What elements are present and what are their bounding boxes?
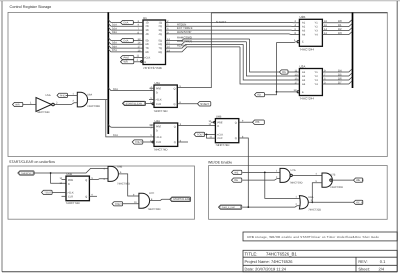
svg-text:74HCT244: 74HCT244 — [300, 47, 315, 51]
svg-text:>CLK: >CLK — [155, 98, 162, 101]
svg-text:START/CLEAR on underflow: START/CLEAR on underflow — [9, 160, 55, 164]
wire START net U1 pin 1Q to U2B A1 — [166, 22, 300, 24]
wire D5 from U2A Y2 to bus B3 — [322, 73, 352, 76]
svg-text:WE_B: WE_B — [356, 179, 364, 182]
svg-text:D: D — [68, 183, 70, 186]
label OE — [232, 178, 242, 182]
wire DIAG to U8A in2 — [243, 206, 300, 207]
svg-text:OE: OE — [234, 179, 238, 182]
svg-text:4D: 4D — [146, 33, 149, 36]
svg-text:Y1: Y1 — [315, 71, 319, 74]
label WR — [13, 102, 37, 106]
wire staircase to U2A A2 — [246, 42, 299, 76]
U5B CLR stub — [62, 195, 67, 197]
svg-text:TIMERCNT: TIMERCNT — [21, 172, 32, 175]
net names on U1 output wires — [177, 22, 193, 47]
svg-text:CLR: CLR — [68, 195, 73, 198]
svg-text:Y2: Y2 — [315, 26, 319, 29]
svg-text:74HCT244: 74HCT244 — [300, 97, 315, 101]
wire inverter out to U6A in2 — [54, 103, 77, 105]
svg-text:74HCT377DB: 74HCT377DB — [143, 66, 162, 70]
svg-text:D7: D7 — [338, 80, 342, 84]
svg-text:Date: 20/07/2019 11:24: Date: 20/07/2019 11:24 — [245, 266, 287, 271]
svg-text:PRE: PRE — [156, 126, 161, 129]
wire START net vertical from U3A Q — [178, 13, 212, 88]
label WR2 — [121, 60, 143, 64]
svg-text:U5A: U5A — [46, 94, 51, 97]
svg-text:Q: Q — [174, 126, 176, 129]
NAND gate U7A 74HCT00 — [276, 168, 303, 184]
section box Control Register Storage — [8, 5, 387, 157]
title block comment box — [243, 232, 397, 241]
AND gate U7C 74HCT08 — [134, 192, 161, 211]
svg-text:U7C: U7C — [149, 192, 154, 195]
svg-text:D7A: D7A — [112, 49, 117, 52]
svg-text:PHI2: PHI2 — [60, 94, 66, 97]
U4A Qbar stub — [178, 141, 188, 143]
svg-text:U1: U1 — [143, 16, 147, 20]
svg-text:START: START — [216, 20, 227, 24]
svg-text:Q: Q — [174, 88, 176, 91]
label TOUT to U7C in2 — [112, 202, 139, 206]
label TOUT to U4B CLK — [194, 132, 215, 136]
svg-text:PRE: PRE — [217, 121, 222, 124]
svg-text:WR: WR — [15, 103, 19, 106]
U5B Qbar stub — [89, 195, 97, 197]
net names D1A-D7A on U1 input wires — [112, 24, 117, 53]
bus B3 — [352, 12, 354, 88]
wire EXT TRIG E U1 pin 3Q to U2B A3 — [166, 29, 300, 32]
svg-text:2Q: 2Q — [159, 25, 162, 28]
svg-text:CLR: CLR — [156, 103, 161, 106]
svg-text:Y2: Y2 — [315, 75, 319, 78]
svg-text:A1: A1 — [302, 22, 306, 25]
svg-text:1Q: 1Q — [159, 21, 162, 24]
svg-text:U4B: U4B — [216, 115, 222, 119]
wire U4A Q to U4B D — [178, 125, 216, 127]
svg-text:U5B: U5B — [66, 172, 72, 176]
svg-text:ALARM: ALARM — [177, 43, 187, 47]
svg-text:CRB storage, WE/OE enable and: CRB storage, WE/OE enable and START/Clea… — [247, 235, 379, 239]
svg-text:E: E — [302, 91, 304, 94]
AND gate U6A 74HCT08 — [73, 92, 101, 108]
svg-text:RD: RD — [257, 94, 261, 97]
wire WE to U7A in1 and U8A in1 — [242, 171, 280, 173]
label PHI2 — [121, 56, 144, 60]
U4B pin numbers — [209, 120, 245, 139]
svg-text:A3: A3 — [302, 79, 306, 82]
svg-text:PHI2: PHI2 — [124, 57, 130, 60]
svg-text:TITLE:: TITLE: — [245, 252, 258, 257]
svg-text:D0A: D0A — [113, 88, 118, 91]
svg-text:OS: OS — [255, 120, 259, 124]
label WE_B — [354, 178, 364, 182]
U4B Q wire to OS label — [239, 121, 253, 123]
svg-text:Control Register Storage: Control Register Storage — [10, 5, 52, 9]
svg-text:D: D — [217, 125, 219, 128]
svg-text:D3: D3 — [338, 31, 342, 35]
svg-text:8D: 8D — [146, 51, 149, 54]
svg-text:Sheet:: Sheet: — [358, 266, 370, 271]
svg-text:U4A: U4A — [155, 119, 161, 123]
U4B CLR branch wire — [207, 134, 216, 138]
junction node W2 — [311, 201, 313, 203]
wire OE to U7A in2 — [242, 179, 280, 181]
svg-text:>CLK: >CLK — [155, 136, 162, 139]
svg-text:4Q: 4Q — [159, 33, 162, 36]
svg-text:D4A: D4A — [124, 39, 129, 42]
U4A D input from bus B1 — [108, 125, 154, 128]
svg-text:D: D — [156, 130, 158, 133]
label START — [198, 102, 211, 106]
label TIMERCNTEN — [18, 171, 34, 175]
flip-flop U4B 74HCT74 — [215, 115, 238, 148]
svg-text:D6A: D6A — [112, 45, 117, 48]
wire U7A out to U7B in1 — [292, 174, 322, 176]
U5B pin numbers — [60, 177, 94, 197]
svg-text:74HCT74D: 74HCT74D — [154, 109, 168, 113]
svg-text:Q: Q — [174, 141, 176, 144]
svg-text:Q: Q — [235, 121, 237, 124]
section box WE/OE Enable — [208, 160, 387, 219]
svg-text:Q: Q — [85, 195, 87, 198]
label DIAG_E_KHZ — [219, 205, 242, 209]
wire D2 from U2B Y3 to bus B3 — [322, 28, 352, 31]
svg-text:Q: Q — [85, 179, 87, 182]
svg-text:Y1: Y1 — [315, 22, 319, 25]
svg-text:RUN/STOP: RUN/STOP — [177, 30, 192, 34]
junction node on U4B CLK wire — [206, 134, 208, 136]
svg-text:DIAG_E_KHZ: DIAG_E_KHZ — [222, 206, 236, 209]
U5B PRE stub — [62, 179, 67, 181]
U3A D input wire from bus B1 — [108, 88, 154, 91]
svg-text:5D: 5D — [146, 39, 149, 42]
U3A CLK stub — [149, 98, 154, 100]
svg-text:TOUT: TOUT — [44, 191, 51, 194]
svg-text:Q: Q — [235, 137, 237, 140]
svg-text:CLR: CLR — [217, 137, 222, 140]
bus B1 — [107, 12, 109, 134]
U4A PRE stub — [150, 124, 155, 126]
svg-text:START/CLEAR: START/CLEAR — [126, 102, 143, 105]
flip-flop U3A 74HCT74 — [154, 81, 178, 113]
svg-text:6Q: 6Q — [159, 43, 162, 46]
svg-text:Y3: Y3 — [315, 30, 319, 33]
wire top net to right frame — [211, 12, 387, 14]
svg-text:OS: OS — [282, 71, 286, 74]
page border frame — [0, 0, 400, 2]
svg-text:A1: A1 — [302, 71, 306, 74]
label OE_B — [354, 200, 364, 204]
svg-text:74HCT6526_B1: 74HCT6526_B1 — [266, 252, 297, 257]
U3A pin numbers — [150, 85, 181, 104]
junction node E2 — [276, 91, 278, 93]
svg-text:6D: 6D — [146, 43, 149, 46]
label TOUT to U4A CLR — [132, 140, 154, 144]
svg-text:D5A: D5A — [112, 42, 117, 45]
wire RUN/STOP U1 pin 4Q to U2B A4 — [166, 33, 300, 36]
label TOUT to U5B CLK — [42, 190, 67, 194]
svg-text:CLR: CLR — [156, 141, 161, 144]
wire D7A bus entry to U1 pin 8D — [108, 49, 143, 52]
wire D3 from U2B Y4 to bus B3 — [322, 32, 352, 35]
svg-text:A2: A2 — [302, 75, 306, 78]
AND gate U6B 74HCT08 — [104, 166, 131, 186]
inverter U5A 74HCT04 — [30, 94, 58, 114]
svg-text:0.1: 0.1 — [380, 259, 386, 264]
svg-text:E: E — [302, 41, 304, 44]
svg-text:7Q: 7Q — [159, 47, 162, 50]
svg-text:Q: Q — [174, 103, 176, 106]
svg-text:A4: A4 — [302, 34, 306, 37]
svg-text:WE: WE — [234, 171, 238, 174]
OR gate U8A 74HCT32 — [296, 196, 322, 212]
wire RAMCS0(1) from U1 pin 6Q — [166, 42, 247, 45]
IC U2B 74HCT244 — [297, 15, 322, 51]
section box START/CLEAR on underflow — [8, 160, 195, 219]
svg-text:74HCT08D: 74HCT08D — [117, 182, 130, 185]
flip-flop U4A 74HCT74 — [154, 119, 178, 151]
wire D2A bus entry to U1 pin 3D — [108, 27, 143, 30]
svg-text:A2: A2 — [302, 26, 306, 29]
IC U1 74HCT377 — [143, 16, 166, 70]
wire ALARM from U1 pin 7Q — [166, 44, 244, 48]
label STARTCLEAR to U3A CLR — [123, 101, 154, 105]
svg-text:U7B: U7B — [330, 173, 335, 176]
wire D0 from U2B Y1 to bus B3 — [322, 20, 352, 23]
U4A pin numbers — [150, 123, 182, 142]
svg-text:1D: 1D — [146, 21, 149, 24]
svg-text:3D: 3D — [146, 29, 149, 32]
wire RD net to U2B E — [277, 41, 298, 44]
svg-text:U3A: U3A — [155, 81, 161, 85]
NAND gate U7B 74HCT00 — [316, 173, 344, 189]
svg-text:>CLK: >CLK — [217, 133, 224, 136]
wire U6B out to U7C in1 — [118, 174, 138, 196]
svg-text:74HCT32D: 74HCT32D — [308, 209, 321, 212]
svg-text:D1A: D1A — [113, 134, 118, 137]
svg-text:D0A: D0A — [124, 21, 129, 24]
svg-text:74HCT74D: 74HCT74D — [215, 143, 229, 147]
wire U6A out to U4A CLK — [88, 100, 154, 137]
label OS on U2A A1 — [279, 70, 288, 74]
svg-text:START: START — [200, 102, 209, 106]
svg-text:START/CLEAR: START/CLEAR — [173, 198, 190, 201]
wire D4A bus entry to U1 pin 5D — [108, 38, 143, 41]
wire RD net vertical to U2A E — [277, 43, 298, 92]
svg-text:D3A: D3A — [112, 31, 117, 34]
svg-text:D1A: D1A — [112, 24, 117, 27]
IC U2A 74HCT244 — [297, 64, 322, 100]
svg-text:U2B: U2B — [300, 15, 306, 19]
label STARTCLEAR out — [170, 197, 191, 202]
wire D7 from U2A Y4 to bus B3 — [322, 81, 352, 84]
svg-text:2D: 2D — [146, 25, 149, 28]
svg-text:U2A: U2A — [300, 64, 306, 68]
svg-text:U7A: U7A — [291, 169, 296, 172]
svg-text:3Q: 3Q — [159, 29, 162, 32]
wire D0A bus entry to U1 pin 1D — [108, 20, 143, 23]
wire staircase to U2A A4 — [240, 47, 299, 84]
flip-flop U5B 74HCT74 — [66, 172, 90, 205]
wire staircase to U2A A1 — [250, 39, 300, 72]
label WE — [232, 170, 242, 174]
wire D1A bus entry to U1 pin 2D — [108, 24, 143, 27]
svg-text:74HCT00D: 74HCT00D — [290, 181, 303, 184]
wire D1 from U2B Y2 to bus B3 — [322, 24, 352, 27]
wire RS2EN U1 pin 2Q to U2B A2 — [166, 25, 300, 27]
wire D6 from U2A Y3 to bus B3 — [322, 77, 352, 80]
svg-text:5Q: 5Q — [159, 39, 162, 42]
U3A PRE stub — [150, 87, 155, 89]
svg-text:U6A: U6A — [87, 94, 92, 97]
wire D3A bus entry to U1 pin 4D — [108, 31, 143, 34]
svg-text:A4: A4 — [302, 83, 306, 86]
title block — [243, 250, 397, 271]
U4B Qbar wire down to WE/OE section — [239, 138, 249, 207]
svg-text:OE_B: OE_B — [356, 201, 363, 204]
svg-text:U8A: U8A — [308, 196, 313, 199]
wire RAMCS0(0) from U1 pin 5Q — [166, 39, 250, 41]
wire U7C out to STARTCLEAR label — [150, 199, 170, 200]
U3A Qbar wire to START label — [177, 103, 197, 105]
svg-text:74HCT08D: 74HCT08D — [148, 208, 161, 211]
wire staircase to U2A A3 — [243, 44, 299, 80]
svg-text:2/4: 2/4 — [379, 266, 385, 271]
svg-text:TOUT: TOUT — [135, 141, 142, 144]
junction node W1 — [264, 172, 266, 174]
svg-text:TOUT: TOUT — [115, 203, 122, 206]
U5B Q wire to U6B in2 — [89, 178, 108, 181]
svg-text:A3: A3 — [302, 30, 306, 33]
svg-text:74HCT74D: 74HCT74D — [66, 201, 80, 205]
svg-text:>CLK: >CLK — [144, 57, 151, 60]
wire U8A out branch to U7B in2 — [312, 183, 322, 203]
svg-text:74HCT04D: 74HCT04D — [37, 111, 50, 114]
label D4A — [121, 39, 134, 43]
junction node W3 — [247, 206, 249, 208]
svg-text:Y3: Y3 — [315, 79, 319, 82]
svg-text:REV:: REV: — [358, 259, 367, 264]
svg-text:>CLK: >CLK — [67, 192, 74, 195]
label PHI2 in — [57, 93, 77, 97]
svg-text:Y4: Y4 — [315, 83, 319, 86]
net names D0-D3 — [338, 19, 342, 35]
svg-text:PRE: PRE — [156, 88, 161, 91]
svg-text:TOUT: TOUT — [197, 133, 204, 136]
wire U7B out to WE_B label — [332, 179, 354, 181]
svg-text:D: D — [156, 91, 158, 94]
wire TIMERCNT net — [35, 168, 109, 173]
svg-text:8Q: 8Q — [159, 51, 162, 54]
svg-text:Project Name: 74HCT6526: Project Name: 74HCT6526 — [245, 259, 294, 264]
label D0A — [121, 21, 134, 25]
svg-text:WE/OE Enable: WE/OE Enable — [208, 160, 232, 164]
svg-text:Y4: Y4 — [315, 34, 319, 37]
svg-text:74HCT00D: 74HCT00D — [330, 186, 343, 189]
label RD — [255, 92, 277, 97]
svg-text:WR: WR — [124, 61, 128, 64]
svg-text:D2A: D2A — [112, 27, 117, 30]
wire D6A bus entry to U1 pin 7D — [108, 45, 143, 48]
net names D4-D7 — [338, 68, 342, 84]
wire U8A out to OE_B label — [309, 201, 354, 203]
svg-text:7D: 7D — [146, 47, 149, 50]
U4B PRE stub — [211, 121, 214, 123]
svg-text:74HCT08D: 74HCT08D — [87, 105, 100, 108]
svg-text:U6B: U6B — [117, 166, 122, 169]
label OS out — [253, 120, 265, 124]
svg-text:74HCT74D: 74HCT74D — [154, 147, 168, 151]
wire D4 from U2A Y1 to bus B3 — [322, 69, 352, 72]
wire D5A bus entry to U1 pin 6D — [108, 42, 143, 45]
junction node T1 — [50, 172, 52, 174]
svg-text:PRE: PRE — [68, 179, 73, 182]
wire from U1 pin 8Q — [166, 47, 241, 52]
